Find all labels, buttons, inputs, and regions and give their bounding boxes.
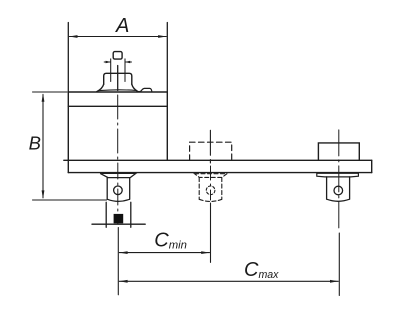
- dimension B line: [42, 95, 44, 198]
- bell flare left side: [97, 84, 104, 92]
- C min left extension line (left drive axis): [117, 228, 119, 295]
- square tip dimension arrow left: [104, 61, 110, 63]
- middle hidden drive hole dashed: [206, 186, 215, 195]
- C min right extension line (middle drive axis): [210, 203, 212, 262]
- left drive pin hole: [114, 186, 123, 195]
- dimension B arrow bottom: [42, 190, 45, 199]
- C max right extension line (right drive axis): [338, 233, 340, 296]
- svg-text:Cmin: Cmin: [154, 230, 187, 252]
- C min arrow right: [201, 251, 210, 254]
- C max dimension line: [119, 280, 338, 282]
- right drive square body: [327, 177, 350, 201]
- dimension A arrow right: [158, 35, 167, 38]
- C max arrow right: [330, 280, 339, 283]
- right block on bar: [318, 143, 359, 160]
- left drive flange: [100, 173, 136, 177]
- dimension A line: [69, 36, 166, 38]
- transducer centerline body: [117, 95, 119, 160]
- right drive flange: [317, 173, 359, 177]
- dimension A extension line right: [166, 23, 168, 93]
- middle hidden drive square dashed: [199, 178, 222, 202]
- right drive pin hole: [334, 186, 343, 195]
- svg-text:Cmax: Cmax: [244, 259, 279, 281]
- boss nut on transducer top: [104, 73, 132, 84]
- left drive upper segment: [107, 178, 130, 202]
- left drive black square marker: [114, 214, 124, 223]
- square tip hidden edge right: [124, 59, 126, 82]
- bar left end edge: [67, 160, 69, 172]
- dimension B bottom extension line: [33, 199, 107, 201]
- square tip hidden edge left: [110, 59, 112, 82]
- middle hidden drive centerline through drive: [210, 166, 212, 200]
- left drive centerline: [117, 163, 119, 224]
- transducer centerline upper: [117, 66, 119, 91]
- bell flare rim line: [99, 89, 136, 92]
- C min arrow left: [119, 251, 128, 254]
- bar top edge: [64, 159, 372, 161]
- right drive centerline: [338, 130, 340, 228]
- dimension A arrow left: [69, 35, 78, 38]
- square tip dimension arrow right: [125, 61, 131, 63]
- bar bottom edge: [68, 172, 371, 174]
- middle hidden drive flange dashed: [195, 174, 228, 178]
- bell flare right side: [132, 84, 137, 91]
- dimension B arrow top: [42, 93, 45, 102]
- release tab lever right of bell: [137, 88, 152, 92]
- left drive square tang: [106, 202, 131, 227]
- svg-text:A: A: [115, 15, 129, 37]
- dimension B top extension line: [33, 91, 68, 93]
- transducer body outline: [68, 92, 167, 160]
- left drive tang bottom edge: [92, 223, 145, 225]
- middle hidden drive centerline above bar: [209, 130, 211, 163]
- svg-text:B: B: [29, 132, 41, 153]
- middle hidden position dashed outline above bar: [190, 142, 232, 160]
- bar right end edge: [371, 160, 373, 172]
- transducer cap line: [68, 105, 167, 107]
- top square drive tip on transducer: [113, 52, 122, 60]
- C max arrow left: [119, 280, 128, 283]
- dimension A extension line left: [67, 23, 69, 93]
- C min dimension line: [119, 252, 209, 254]
